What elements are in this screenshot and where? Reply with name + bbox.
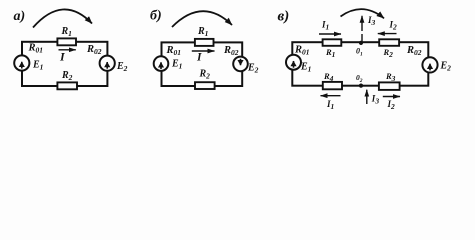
- source E2 (circuit v): [422, 57, 437, 72]
- source E1 (circuit v): [286, 55, 301, 70]
- svg-text:R2: R2: [383, 47, 394, 59]
- source E1 (circuit b): [154, 56, 169, 71]
- current arrow I2 bottom (circuit v): [383, 96, 400, 98]
- resistor R4 (circuit v): [323, 82, 342, 89]
- current arrow I (circuit b): [192, 50, 215, 52]
- current arrow I3 bottom (circuit v): [366, 90, 368, 104]
- svg-text:E2: E2: [247, 63, 259, 75]
- node 02 (circuit v): [359, 84, 363, 88]
- svg-text:E1: E1: [300, 62, 311, 74]
- svg-text:R01: R01: [28, 43, 44, 55]
- svg-text:I: I: [196, 52, 202, 64]
- svg-text:I1: I1: [326, 99, 334, 111]
- resistor R2 (circuit a): [57, 82, 77, 89]
- resistor R1 (circuit v): [323, 39, 342, 46]
- svg-text:R1: R1: [197, 26, 208, 38]
- resistor R1 (circuit a): [57, 38, 76, 45]
- svg-text:02: 02: [356, 73, 363, 84]
- svg-text:I3: I3: [371, 94, 380, 106]
- svg-text:E2: E2: [116, 61, 128, 73]
- resistor R1 (circuit b): [195, 39, 214, 46]
- current arrow I1 top (circuit v): [319, 33, 341, 35]
- svg-text:I1: I1: [321, 20, 329, 32]
- node 01 (circuit v): [359, 41, 363, 45]
- wire loop circuit v: [292, 42, 428, 85]
- wire loop circuit b: [162, 42, 243, 86]
- resistor R2 (circuit v): [379, 39, 399, 46]
- svg-text:R3: R3: [385, 71, 396, 83]
- svg-text:R2: R2: [61, 70, 73, 82]
- svg-text:01: 01: [356, 47, 363, 58]
- svg-text:б): б): [150, 9, 162, 24]
- node direction arc (circuit v): [341, 9, 385, 18]
- svg-text:а): а): [14, 9, 26, 24]
- current arrow I1 bottom (circuit v): [321, 95, 341, 97]
- wire loop circuit a: [22, 42, 107, 86]
- source E2 (circuit a): [100, 56, 115, 71]
- svg-text:R02: R02: [406, 45, 422, 57]
- svg-text:I: I: [59, 50, 66, 64]
- svg-text:R2: R2: [199, 69, 211, 81]
- current arrow I (circuit a): [59, 49, 76, 51]
- current arrow I3 top (circuit v): [361, 34, 363, 43]
- svg-text:I3: I3: [367, 15, 376, 27]
- svg-text:I2: I2: [389, 20, 398, 32]
- svg-text:R02: R02: [223, 45, 239, 57]
- source E2 (circuit b): [233, 57, 248, 72]
- current arrow I2 top (circuit v): [378, 33, 397, 35]
- resistor R3 (circuit v): [379, 82, 400, 90]
- resistor R2 (circuit b): [195, 82, 215, 89]
- svg-text:R01: R01: [166, 45, 182, 57]
- svg-text:R1: R1: [61, 26, 72, 38]
- svg-text:R02: R02: [86, 44, 102, 56]
- svg-text:в): в): [278, 9, 290, 25]
- svg-text:I2: I2: [387, 99, 396, 111]
- svg-text:E1: E1: [171, 59, 182, 71]
- source E1 (circuit a): [14, 55, 29, 70]
- svg-text:E1: E1: [32, 60, 43, 72]
- loop direction arc (circuit a): [33, 9, 92, 27]
- svg-text:R1: R1: [325, 47, 335, 59]
- svg-text:E2: E2: [440, 61, 452, 73]
- loop direction arc (circuit b): [172, 11, 232, 27]
